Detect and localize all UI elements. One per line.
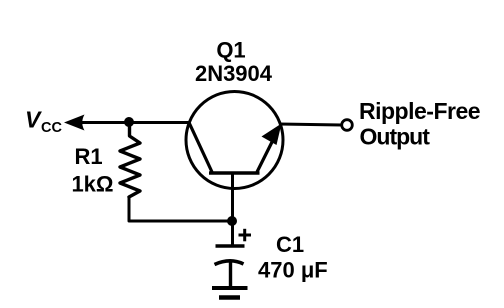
- emitter arrow: [262, 124, 282, 146]
- cap bottom lead: [229, 261, 232, 288]
- wire emitter to output terminal: [279, 124, 342, 125]
- transistor Q1: [186, 92, 283, 223]
- svg-text:V: V: [25, 107, 42, 133]
- svg-text:Ripple-Free: Ripple-Free: [359, 98, 480, 124]
- label Vcc: [25, 107, 62, 137]
- ground: [212, 288, 248, 298]
- Vcc arrow (pointing left): [64, 115, 85, 131]
- circle body: [186, 92, 283, 189]
- node junction Vcc/R1: [124, 117, 134, 127]
- label Ripple-Free Output: [359, 98, 480, 150]
- capacitor C1: [215, 246, 245, 288]
- emitter line: [257, 130, 278, 172]
- bottom plate (curved): [215, 261, 244, 265]
- base lead down: [231, 173, 234, 222]
- svg-text:Output: Output: [360, 124, 431, 150]
- svg-text:R1: R1: [74, 144, 102, 169]
- svg-text:470 μF: 470 μF: [258, 258, 328, 283]
- svg-text:C1: C1: [276, 232, 304, 257]
- output terminal (open circle): [342, 120, 353, 131]
- base bar: [209, 171, 260, 175]
- plus sign (C1 polarity): [239, 229, 252, 242]
- wire R1 bottom to base junction: [129, 196, 232, 221]
- wire Vcc to transistor collector: [80, 121, 190, 124]
- node junction base/C1: [227, 216, 237, 226]
- resistor R1: [120, 122, 140, 197]
- svg-text:1kΩ: 1kΩ: [71, 172, 113, 197]
- svg-text:2N3904: 2N3904: [195, 61, 273, 86]
- svg-text:Q1: Q1: [216, 38, 245, 63]
- top plate: [216, 244, 245, 248]
- collector line: [189, 123, 212, 173]
- svg-text:CC: CC: [41, 120, 62, 136]
- wire junction to C1 top plate: [231, 221, 234, 246]
